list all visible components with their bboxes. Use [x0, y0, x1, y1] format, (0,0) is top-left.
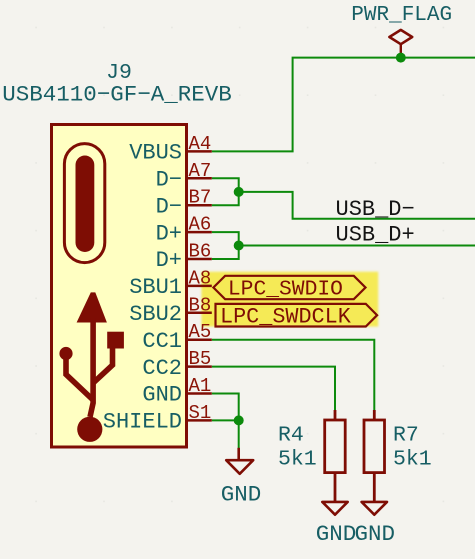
pin B7 D- [156, 187, 212, 220]
ground below R7 [362, 502, 387, 515]
svg-text:R7: R7 [393, 423, 419, 447]
svg-text:CC1: CC1 [142, 329, 182, 354]
junction on VBUS under PWR_FLAG [396, 53, 406, 63]
svg-text:D−: D− [156, 194, 182, 219]
svg-text:LPC_SWDCLK: LPC_SWDCLK [220, 304, 352, 329]
ground below connector [226, 448, 253, 474]
svg-text:USB4110−GF−A_REVB: USB4110−GF−A_REVB [2, 82, 232, 108]
wire USB_D+ net from junction [239, 245, 475, 247]
pin A8 SBU1 [129, 267, 212, 300]
svg-text:A7: A7 [189, 160, 212, 182]
svg-text:R4: R4 [278, 423, 304, 447]
wire GND pin A1 [212, 394, 239, 421]
pin B8 SBU2 [129, 294, 212, 327]
svg-text:B8: B8 [189, 294, 212, 316]
svg-text:A1: A1 [189, 375, 212, 397]
USB icon trident [59, 292, 123, 442]
pin A1 GND [142, 375, 211, 408]
wire CC1 to R7 [212, 340, 374, 410]
svg-text:GND: GND [142, 383, 182, 408]
svg-text:USB_D−: USB_D− [336, 197, 415, 222]
wire D- pins A7 to B7 [212, 178, 239, 205]
svg-text:A6: A6 [189, 214, 212, 236]
pin A4 VBUS [129, 133, 212, 166]
svg-text:VBUS: VBUS [129, 141, 182, 166]
resistor R7 [364, 410, 385, 501]
svg-text:CC2: CC2 [142, 356, 182, 381]
svg-text:GND: GND [354, 521, 395, 547]
junction D- [234, 187, 244, 197]
svg-text:D−: D− [156, 168, 182, 193]
wire to ground [238, 420, 240, 448]
svg-text:A5: A5 [189, 321, 212, 343]
pin A5 CC1 [142, 321, 211, 354]
svg-text:SBU1: SBU1 [129, 275, 182, 300]
svg-text:A4: A4 [189, 133, 212, 155]
wire USB_D- net from junction [239, 192, 475, 219]
svg-text:SBU2: SBU2 [129, 302, 182, 327]
power symbol PWR_FLAG [389, 30, 412, 58]
wire D+ pins A6 to B6 [212, 232, 239, 259]
wire CC2 to R4 [212, 367, 335, 410]
svg-text:B6: B6 [189, 241, 212, 263]
svg-text:D+: D+ [156, 248, 182, 273]
highlight [201, 272, 378, 327]
pin A6 D+ [156, 214, 212, 247]
connector J9 body [52, 125, 187, 448]
svg-text:D+: D+ [156, 221, 182, 246]
wire VBUS [212, 58, 475, 152]
svg-text:PWR_FLAG: PWR_FLAG [351, 4, 452, 27]
wire SHIELD pin S1 [212, 419, 239, 421]
pin B5 CC2 [142, 348, 211, 381]
ground below R4 [322, 502, 347, 515]
svg-text:B5: B5 [189, 348, 212, 370]
resistor R4 [325, 410, 346, 501]
junction D+ [234, 241, 244, 251]
USB icon pill [64, 144, 104, 263]
global label LPC_SWDIO [213, 276, 365, 302]
svg-text:A8: A8 [189, 267, 212, 289]
global label LPC_SWDCLK [216, 304, 378, 329]
svg-text:LPC_SWDIO: LPC_SWDIO [228, 278, 343, 302]
pin B6 D+ [156, 241, 212, 274]
svg-text:S1: S1 [189, 402, 212, 424]
svg-text:GND: GND [221, 481, 262, 507]
svg-text:5k1: 5k1 [393, 448, 432, 472]
svg-text:SHIELD: SHIELD [103, 410, 182, 435]
svg-text:5k1: 5k1 [278, 448, 317, 472]
pin A7 D- [156, 160, 212, 193]
svg-text:GND: GND [316, 521, 357, 547]
svg-text:USB_D+: USB_D+ [336, 222, 415, 247]
junction GND/SHIELD [234, 415, 244, 425]
pin S1 SHIELD [103, 402, 212, 435]
svg-text:B7: B7 [189, 187, 212, 209]
